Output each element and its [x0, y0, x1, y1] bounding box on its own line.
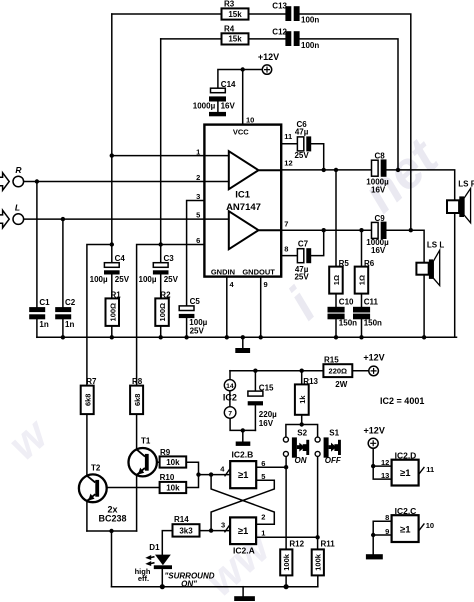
wire R15 to +12V: [352, 370, 369, 372]
wire R input to pin2: [24, 181, 229, 183]
wire C12 to C8 output node: [300, 39, 398, 170]
svg-text:R8: R8: [132, 377, 143, 386]
capacitor C6 47u 25V: [297, 136, 311, 151]
wire R3 to C13: [249, 13, 286, 15]
svg-text:100µ: 100µ: [139, 275, 157, 284]
wire C4 to R1: [111, 275, 113, 299]
wire IC2 pin14 to pin7: [229, 391, 231, 407]
svg-text:R2: R2: [160, 290, 171, 299]
resistor R15 220ohm 2W: [323, 364, 352, 377]
svg-text:R5: R5: [339, 259, 350, 268]
svg-text:8: 8: [385, 513, 389, 522]
loudspeaker LS L: [416, 250, 439, 285]
svg-text:1k: 1k: [298, 395, 307, 404]
svg-text:3k3: 3k3: [179, 527, 193, 536]
capacitor C4 100u 25V: [104, 263, 120, 275]
wire C1 top: [36, 182, 38, 308]
svg-text:2: 2: [196, 173, 200, 182]
transistor T2 BC238: [79, 474, 107, 502]
svg-text:C7: C7: [298, 239, 309, 248]
supply +12V symbol top: [262, 65, 271, 74]
capacitor C11 150n: [353, 307, 370, 320]
svg-text:R10: R10: [160, 473, 175, 482]
svg-text:150n: 150n: [339, 319, 357, 328]
wire pin3 to C5: [187, 201, 205, 306]
wire IC2.C inputs to ground: [373, 521, 391, 554]
svg-text:100µ: 100µ: [90, 275, 108, 284]
svg-text:OFF: OFF: [325, 456, 342, 465]
capacitor C13 100n: [285, 6, 299, 21]
wire C3 to R2: [160, 275, 162, 299]
capacitor C9 1000u 16V: [372, 222, 387, 239]
resistor R5 1ohm: [329, 267, 343, 294]
wire S1 lower contact to pin1 node and R11: [317, 456, 319, 549]
wire R2 bottom: [160, 326, 162, 337]
wire L input to pin5: [24, 218, 229, 220]
wire R5 drop: [335, 170, 337, 267]
resistor R10 10k: [160, 482, 187, 493]
wire R1 bottom: [111, 326, 113, 337]
svg-text:10: 10: [426, 521, 434, 530]
svg-text:100k: 100k: [282, 553, 291, 571]
svg-text:1n: 1n: [65, 320, 74, 329]
wire IC2.B pin6: [256, 466, 286, 468]
svg-text:≥1: ≥1: [400, 524, 411, 535]
svg-text:D1: D1: [149, 543, 160, 552]
svg-text:R12: R12: [289, 539, 304, 548]
svg-text:13: 13: [381, 471, 389, 480]
wire pin4 GNDIN: [226, 277, 228, 338]
wire R5 to C10: [335, 294, 337, 307]
NOR gate IC2.B: [225, 461, 257, 488]
wire node A vertical (R3 / pin1 / C4): [111, 14, 113, 245]
svg-text:16V: 16V: [221, 102, 236, 111]
svg-text:11: 11: [426, 465, 434, 474]
wire pin6 to IC1 with branch to R8: [137, 245, 205, 386]
svg-text:R15: R15: [324, 356, 339, 365]
wire emitter join to bottom rail: [111, 531, 113, 587]
wire +12V rail to C14: [218, 70, 263, 89]
wire T1 emitter down: [136, 475, 138, 531]
wire pin6 node A branch to R7: [87, 245, 112, 386]
NOR gate IC2.D: [392, 460, 425, 486]
wire D1 cathode to bottom rail: [161, 569, 163, 587]
svg-text:VCC: VCC: [233, 127, 249, 136]
svg-text:9: 9: [385, 527, 389, 536]
svg-text:LS R: LS R: [458, 180, 474, 189]
svg-text:2: 2: [261, 513, 265, 522]
svg-text:ON: ON: [295, 456, 307, 465]
svg-text:S1: S1: [329, 429, 339, 438]
wire R8 to T1 collector: [136, 414, 138, 449]
resistor R3 15k: [222, 8, 249, 19]
svg-text:C11: C11: [364, 298, 379, 307]
LED D1: [145, 555, 172, 570]
svg-text:BC238: BC238: [98, 514, 126, 524]
svg-text:R6: R6: [364, 259, 375, 268]
wire C3 top leg: [160, 245, 162, 263]
svg-text:7: 7: [284, 220, 288, 229]
svg-text:C2: C2: [65, 298, 76, 307]
svg-text:1Ω: 1Ω: [357, 275, 366, 285]
svg-text:25V: 25V: [294, 273, 309, 282]
svg-text:C5: C5: [190, 297, 201, 306]
svg-text:T1: T1: [141, 437, 151, 446]
svg-text:C1: C1: [39, 298, 50, 307]
wire LS L to ground rail: [423, 275, 425, 338]
svg-text:10k: 10k: [166, 484, 180, 493]
svg-text:LS L: LS L: [427, 240, 444, 249]
svg-text:IC2.A: IC2.A: [233, 545, 255, 555]
wire C14 to ground: [217, 102, 219, 112]
svg-text:3: 3: [196, 192, 200, 201]
wire C2 bottom: [62, 319, 64, 337]
resistor R11 100k: [312, 549, 324, 575]
svg-text:R3: R3: [224, 0, 235, 8]
wire C10 to ground rail: [335, 319, 337, 337]
wire C6 to pin12 net: [311, 144, 324, 170]
svg-text:5: 5: [196, 210, 200, 219]
wire R9 R10 join to IC2.B output pin4: [186, 462, 230, 487]
wire R4 input from node B: [161, 38, 222, 40]
ground symbol main rail: [235, 348, 250, 353]
svg-text:6: 6: [261, 459, 265, 468]
svg-text:C14: C14: [221, 80, 236, 89]
wire +12V to IC2.D inputs: [373, 448, 391, 479]
wire C2 top: [62, 219, 64, 307]
svg-text:AN7147: AN7147: [226, 202, 261, 213]
svg-text:1: 1: [196, 147, 200, 156]
capacitor C12 100n: [285, 31, 299, 46]
svg-text:+12V: +12V: [363, 352, 384, 362]
svg-text:C3: C3: [164, 254, 175, 263]
svg-text:R7: R7: [86, 377, 97, 386]
supply +12V symbol mid: [369, 366, 379, 376]
svg-text:C9: C9: [375, 214, 386, 223]
svg-text:6: 6: [196, 236, 200, 245]
wire R12 bottom: [285, 575, 287, 586]
svg-text:2W: 2W: [335, 380, 347, 389]
ground symbol bottom rail: [234, 596, 255, 601]
capacitor C2 1n: [55, 307, 71, 319]
svg-text:IC2.B: IC2.B: [232, 450, 254, 460]
ground symbol under IC2.C: [366, 554, 383, 559]
wire LS R to ground rail: [455, 213, 457, 337]
resistor R14 3k3: [173, 524, 200, 536]
wire pin12 output: [281, 169, 371, 171]
wire C7 to pin7 net: [311, 230, 324, 255]
resistor R1 100ohm: [106, 298, 120, 326]
pushbutton S2 ON: [283, 437, 309, 458]
wire node B vertical (R4 / C3): [160, 39, 162, 245]
svg-text:25V: 25V: [294, 151, 309, 160]
capacitor C8 1000u 16V: [372, 159, 387, 176]
svg-text:220Ω: 220Ω: [329, 367, 348, 376]
wire pin8 to C7: [281, 255, 297, 257]
svg-text:1: 1: [261, 528, 265, 537]
svg-text:1000µ: 1000µ: [193, 102, 216, 111]
wire R11 bottom: [317, 575, 319, 586]
ground symbol under C14: [209, 112, 226, 116]
svg-text:25V: 25V: [190, 326, 205, 335]
wire R14 to D1: [162, 531, 172, 555]
input terminal L: [0, 210, 24, 228]
capacitor C14 1000u 16V: [209, 88, 226, 101]
svg-text:IC2 = 4001: IC2 = 4001: [380, 396, 424, 406]
wire VCC pin10: [242, 70, 244, 125]
svg-text:6k8: 6k8: [83, 394, 92, 407]
svg-text:15k: 15k: [228, 10, 242, 19]
loudspeaker LS R: [447, 188, 471, 222]
wire C4 top leg: [111, 245, 113, 263]
wire pin9 GNDOUT: [260, 277, 262, 338]
svg-text:3: 3: [221, 521, 225, 530]
wire bottom ground rail: [112, 586, 318, 588]
resistor R8 6k8: [130, 386, 143, 415]
wire bottom rail stub to ground symbol: [242, 587, 244, 597]
wire C8 to LS R: [387, 170, 455, 200]
svg-text:16V: 16V: [259, 419, 274, 428]
svg-text:14: 14: [226, 383, 234, 390]
wire C11 to ground rail: [361, 319, 363, 337]
IC2 pin 7 terminal: [224, 407, 236, 419]
svg-text:R14: R14: [174, 515, 189, 524]
capacitor C5 100u 25V: [179, 306, 195, 318]
resistor R9 10k: [160, 456, 187, 467]
svg-text:R11: R11: [321, 539, 336, 548]
svg-text:100k: 100k: [314, 553, 323, 571]
transistor T1 BC238: [129, 448, 157, 476]
capacitor C1 1n: [29, 307, 45, 319]
wire latch cross coupling A-out to B-in5: [211, 480, 274, 530]
resistor R4 15k: [222, 33, 249, 44]
wire C1 bottom: [36, 319, 38, 337]
svg-text:150n: 150n: [364, 319, 382, 328]
op-amp IC1 amplifier A triangle: [229, 151, 281, 189]
capacitor C3 100u 25V: [153, 263, 169, 275]
svg-text:10k: 10k: [166, 458, 180, 467]
wire T2 base to R10: [99, 487, 160, 489]
svg-text:C15: C15: [259, 384, 274, 393]
svg-text:R4: R4: [224, 25, 235, 34]
wire S2 lower contact to pin6 node and R12: [285, 456, 287, 549]
wire R13 to S2 S1 tee: [286, 415, 318, 437]
wire C13 to LS L column: [300, 14, 411, 230]
NOR gate IC2.C: [392, 515, 425, 542]
svg-text:16V: 16V: [371, 246, 386, 255]
resistor R6 1ohm: [355, 267, 369, 294]
svg-text:8: 8: [284, 245, 288, 254]
svg-text:C13: C13: [272, 1, 287, 10]
svg-text:15k: 15k: [228, 35, 242, 44]
svg-text:IC2.D: IC2.D: [395, 451, 417, 461]
wire IC2.A pin1 to S1: [256, 536, 318, 538]
svg-text:12: 12: [381, 458, 389, 467]
svg-text:11: 11: [284, 132, 292, 141]
wire IC2 supply rail: [230, 370, 323, 372]
wire pin11 to C6: [281, 143, 297, 145]
NOR gate IC2.A: [225, 517, 257, 544]
svg-text:C12: C12: [272, 28, 287, 37]
svg-text:100Ω: 100Ω: [158, 303, 167, 322]
svg-text:IC2: IC2: [223, 393, 237, 403]
wire IC2 pin7 to ground: [230, 418, 255, 441]
svg-text:C4: C4: [115, 254, 126, 263]
input terminal R: [0, 173, 24, 191]
svg-text:100n: 100n: [301, 15, 319, 24]
svg-text:R9: R9: [160, 448, 171, 457]
svg-text:220µ: 220µ: [259, 410, 277, 419]
svg-text:R: R: [15, 165, 22, 175]
wire R3 input from node A: [112, 13, 222, 15]
resistor R2 100ohm: [155, 298, 169, 326]
resistor R12 100k: [280, 549, 292, 575]
svg-text:100n: 100n: [301, 41, 319, 50]
svg-text:T2: T2: [91, 464, 101, 473]
wire C9 to LS L: [387, 230, 425, 262]
svg-text:S2: S2: [297, 429, 307, 438]
svg-text:+12V: +12V: [364, 426, 385, 436]
wire C15 top: [254, 371, 256, 391]
svg-text:5: 5: [261, 472, 265, 481]
svg-text:100Ω: 100Ω: [108, 303, 117, 322]
capacitor C7 47u 25V: [297, 248, 311, 263]
svg-text:7: 7: [228, 411, 232, 418]
capacitor C10 150n: [328, 307, 345, 320]
wire T2 emitter down: [86, 501, 88, 531]
svg-text:47µ: 47µ: [295, 128, 309, 137]
pushbutton S1 OFF: [315, 437, 341, 458]
wire T1 base to R9: [149, 461, 160, 463]
wire latch cross coupling B-out to A-in2: [211, 475, 274, 525]
wire ground rail stub to ground symbol: [242, 337, 244, 348]
wire C5 bottom: [186, 318, 188, 337]
resistor R7 6k8: [81, 386, 94, 415]
wire pin7 output: [281, 229, 371, 231]
wire emitter join: [87, 530, 137, 532]
svg-text:≥1: ≥1: [238, 470, 249, 481]
svg-text:GNDIN: GNDIN: [211, 267, 235, 276]
svg-text:R13: R13: [303, 377, 318, 386]
svg-text:GNDOUT: GNDOUT: [242, 267, 275, 276]
svg-text:C10: C10: [339, 298, 354, 307]
wire C15 bottom: [254, 405, 256, 430]
svg-text:L: L: [15, 202, 20, 212]
supply +12V symbol lower: [368, 438, 378, 448]
svg-text:16V: 16V: [371, 186, 386, 195]
wire R13 top: [301, 371, 303, 385]
svg-text:eff.: eff.: [138, 574, 149, 583]
wire IC2 pin14: [229, 371, 231, 380]
svg-text:6k8: 6k8: [133, 394, 142, 407]
wire R7 to T2 collector: [86, 414, 88, 476]
svg-text:IC1: IC1: [235, 189, 251, 200]
svg-text:10: 10: [246, 115, 254, 124]
svg-text:R1: R1: [111, 290, 122, 299]
resistor R13 1k: [295, 384, 309, 414]
op-amp IC1 amplifier B triangle: [229, 211, 281, 249]
svg-text:C8: C8: [375, 151, 386, 160]
svg-text:IC2.C: IC2.C: [395, 506, 417, 516]
wire R6 drop: [361, 230, 363, 266]
op-amp IC1 AN7147 box: [204, 125, 281, 277]
wire R6 to C11: [361, 294, 363, 307]
svg-text:12: 12: [284, 159, 292, 168]
svg-text:ON": ON": [181, 579, 197, 588]
svg-text:25V: 25V: [164, 275, 179, 284]
svg-text:1n: 1n: [39, 320, 48, 329]
watermark: [0, 127, 451, 602]
svg-text:1Ω: 1Ω: [332, 275, 341, 285]
wire ground rail: [37, 336, 457, 338]
IC2 pin 14 terminal: [224, 380, 235, 391]
svg-text:+12V: +12V: [258, 52, 279, 62]
wire R4 to C12: [249, 38, 286, 40]
capacitor C15 220u 16V: [248, 391, 263, 405]
svg-text:≥1: ≥1: [400, 468, 411, 479]
svg-text:9: 9: [264, 280, 268, 289]
svg-text:≥1: ≥1: [238, 526, 249, 537]
wire R14 to IC2.A output pin3: [200, 530, 231, 532]
svg-text:25V: 25V: [115, 275, 130, 284]
ground symbol under IC2 pin7: [236, 442, 251, 446]
wire pin1 to IC1: [112, 155, 229, 157]
